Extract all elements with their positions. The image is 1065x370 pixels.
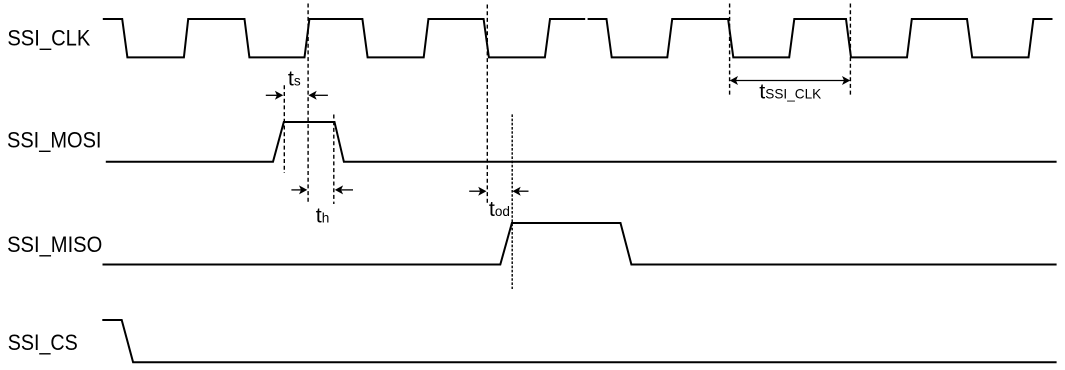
node tSSI_CLK left reference line (dashed) [729,4,731,95]
node ts reference line (dashed, MOSI valid edge) [283,85,285,173]
arrow tSSI_CLK double-headed [730,76,851,85]
svg-text:SSI_MOSI: SSI_MOSI [7,127,102,152]
svg-text:SSI_CS: SSI_CS [8,330,78,355]
node tSSI_CLK right reference line (dashed) [849,4,851,95]
arrow tod left [469,187,486,196]
svg-text:SSI_MISO: SSI_MISO [7,232,102,257]
node clock falling edge reference line (dashed) [486,5,488,206]
node MISO valid edge reference line (dashed) [511,114,513,289]
SSI_MISO waveform [103,223,1057,265]
svg-text:SSI_CLK: SSI_CLK [7,26,90,51]
arrow th left [291,185,307,194]
arrow ts right [308,91,328,100]
arrow tod right [512,187,528,196]
SSI_CS waveform [102,320,1056,362]
arrow ts left [266,91,283,100]
SSI_MOSI waveform [106,122,1057,162]
node clock rising edge reference line (dashed) [307,4,309,205]
gap artifact on SSI_CLK high line [585,17,587,20]
node MOSI invalid edge reference line (dashed) [333,115,335,205]
SSI_CLK waveform [103,19,1053,57]
arrow th right [335,185,353,194]
